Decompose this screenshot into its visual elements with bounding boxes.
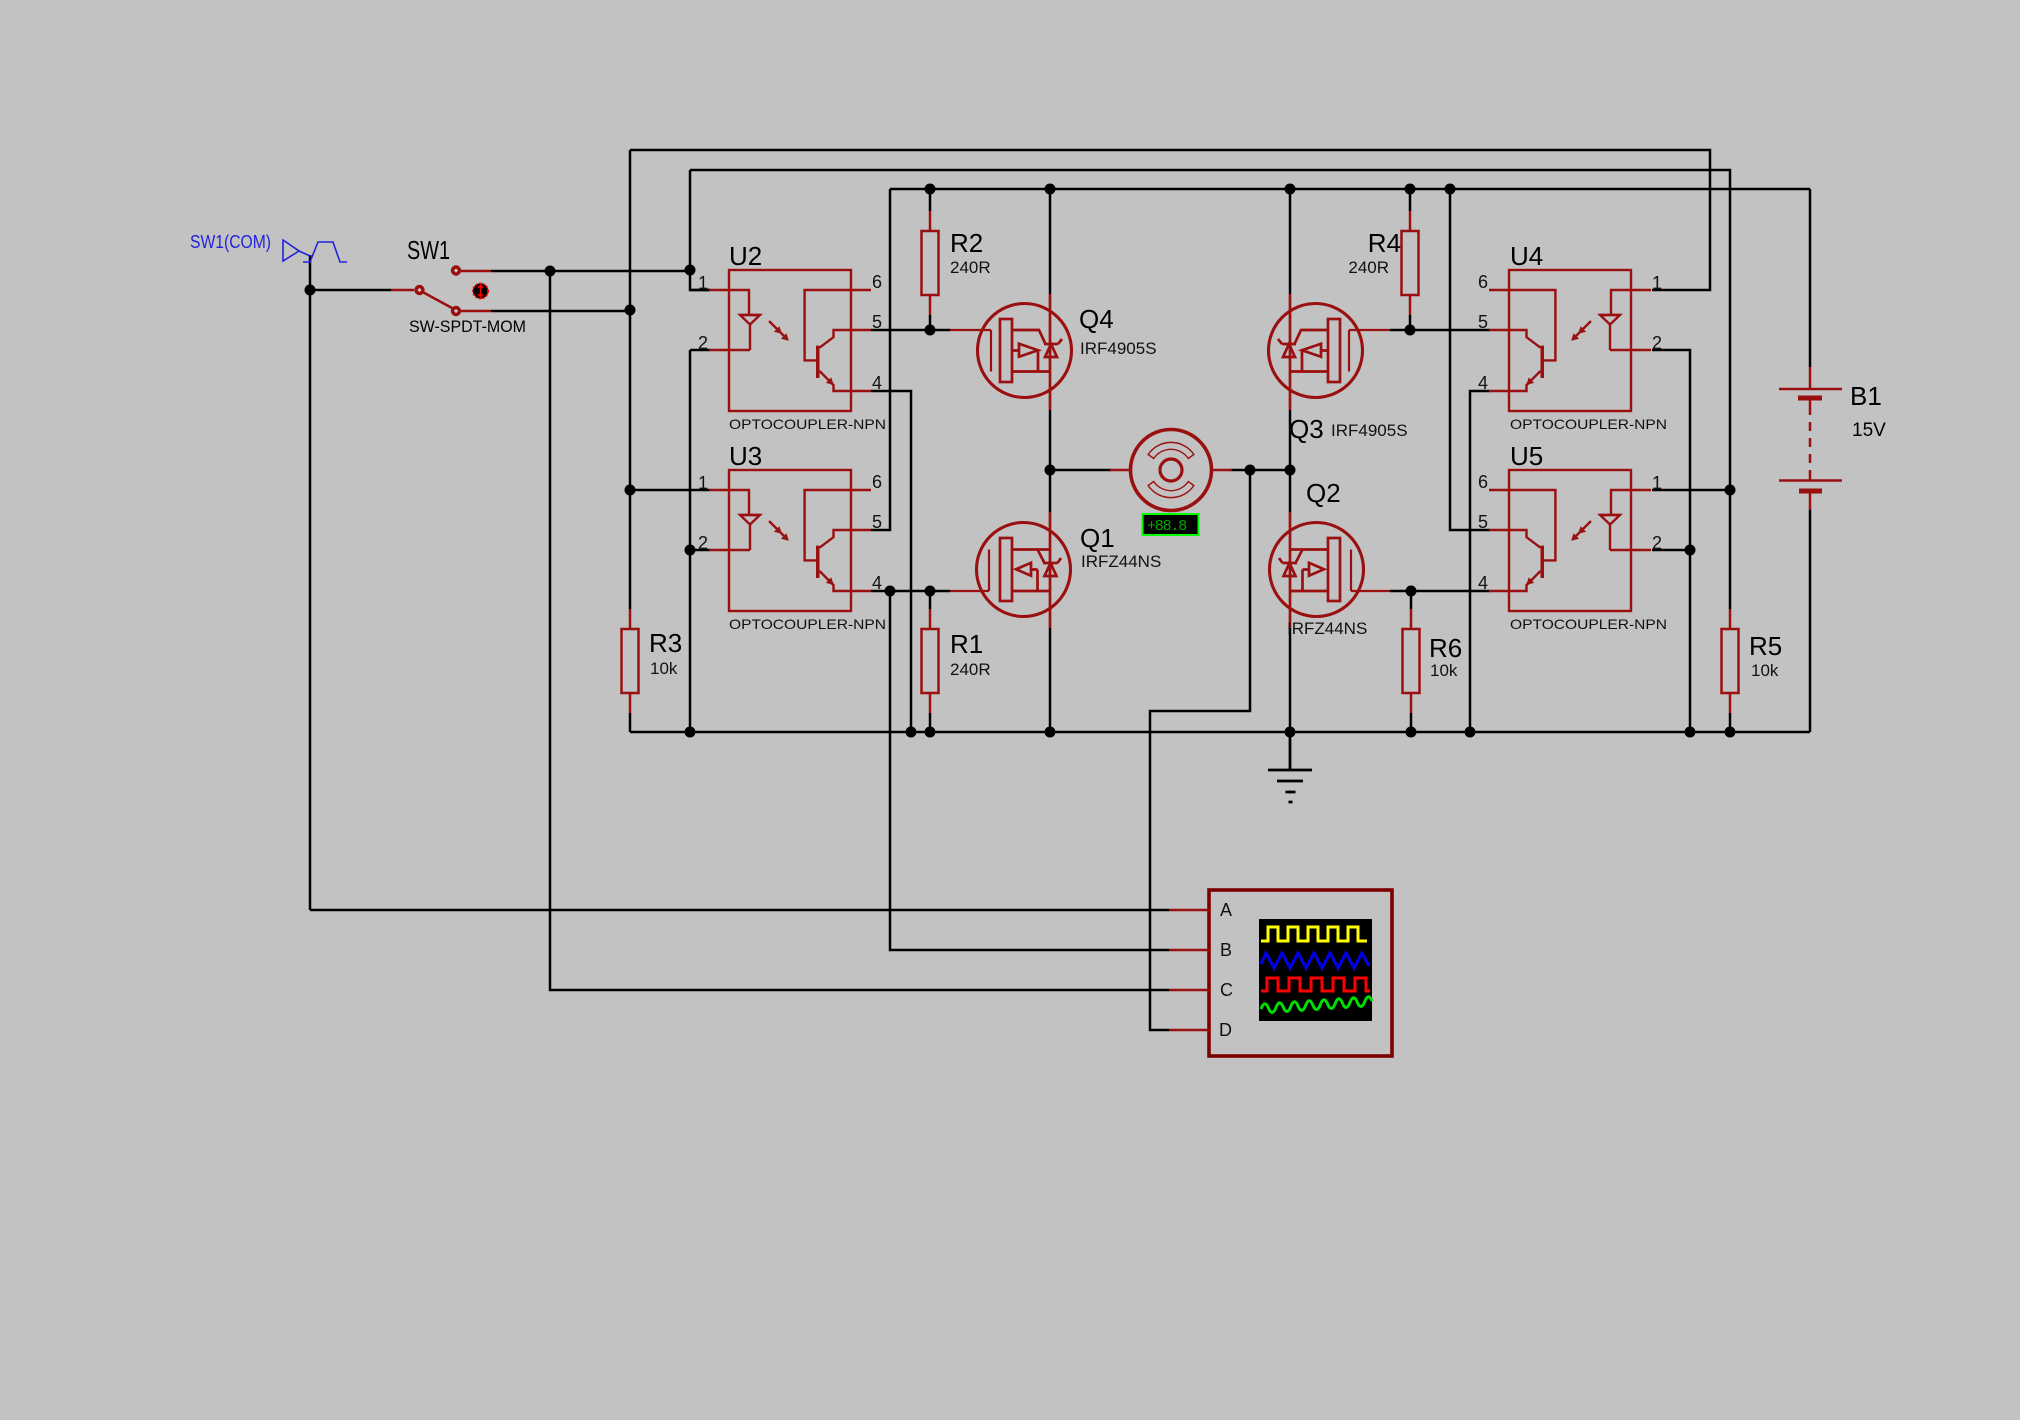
wire U3 pin5 riser to V+ rail (871, 189, 890, 530)
junction (1290,732) (1285, 727, 1296, 738)
junction (1450,189) (1445, 184, 1456, 195)
transistor Q3 labels (1289, 414, 1408, 444)
wire SW1 lower throw to x=630 (491, 310, 630, 311)
transistor Q4 (950, 294, 1072, 410)
junction (1690,550) (1685, 545, 1696, 556)
junction (690,550) (685, 545, 696, 556)
junction (930,330) (925, 325, 936, 336)
svg-text:6: 6 (872, 272, 882, 292)
svg-text:R2: R2 (950, 228, 983, 258)
wire top bus 2 (SW1 upper net to U5 pin1) (690, 170, 1730, 609)
optocoupler U2 labels (698, 241, 886, 432)
wire R6 stubs (1410, 591, 1413, 732)
ground (1268, 732, 1312, 802)
resistor R1 (922, 609, 939, 713)
junction (1290,189) (1285, 184, 1296, 195)
svg-text:IRFZ44NS: IRFZ44NS (1287, 619, 1367, 638)
wire U5 pin4 to R6 top and Q2 gate (1411, 590, 1490, 593)
svg-text:U3: U3 (729, 441, 762, 471)
wire U2 pin5 to R2 bottom and Q4 gate (871, 329, 950, 332)
svg-text:SW1(COM): SW1(COM) (190, 232, 271, 252)
svg-text:SW1: SW1 (407, 235, 450, 265)
junction (890,591) (885, 586, 896, 597)
wire U2 pin1 lead (690, 289, 710, 292)
junction (630,490) (625, 485, 636, 496)
wire x=630 vertical (SW1 lower throw to R3 / U3 pin1) (629, 150, 632, 609)
resistor R1 labels (950, 629, 991, 679)
svg-text:10k: 10k (650, 659, 678, 678)
svg-text:4: 4 (872, 573, 882, 593)
wire U5 pin1 to x=1730 (1652, 489, 1730, 492)
wire U3 pin2 lead (690, 549, 710, 552)
svg-text:B1: B1 (1850, 381, 1882, 411)
junction (1690,732) (1685, 727, 1696, 738)
wire R4 stubs (1409, 189, 1412, 330)
battery B1 (1779, 367, 1842, 510)
wire scope C from SW1 upper net (550, 271, 1169, 990)
svg-text:OPTOCOUPLER-NPN: OPTOCOUPLER-NPN (729, 416, 886, 432)
wire R5 bottom stub (1729, 713, 1732, 732)
resistor R3 (622, 609, 639, 713)
svg-text:Q2: Q2 (1306, 478, 1341, 508)
wire R2 stubs (929, 189, 932, 330)
motor (1110, 430, 1232, 511)
wire U5 pin2 lead (1652, 549, 1690, 552)
svg-text:1: 1 (698, 273, 708, 293)
svg-text:4: 4 (872, 373, 882, 393)
oscilloscope (1169, 890, 1392, 1056)
resistor R6 (1403, 609, 1420, 713)
svg-text:R4: R4 (1368, 228, 1401, 258)
svg-text:U2: U2 (729, 241, 762, 271)
svg-text:6: 6 (872, 472, 882, 492)
battery B1 labels (1850, 381, 1886, 441)
wire top bus 3 (V+ rail y=189) (890, 188, 1810, 191)
wire Q3 drain/source column x=1290 (1289, 189, 1292, 470)
junction (1050,732) (1045, 727, 1056, 738)
junction (630,310) (625, 305, 636, 316)
svg-text:R6: R6 (1429, 633, 1462, 663)
transistor Q1 (950, 512, 1071, 628)
wire ground bus (630, 731, 1810, 734)
wire Q4 drain/source column x=1050 (1049, 189, 1052, 470)
svg-text:IRFZ44NS: IRFZ44NS (1081, 552, 1161, 571)
wire motor right lead (1231, 469, 1290, 472)
optocoupler U3 labels (698, 441, 886, 632)
optocoupler U4 (1489, 270, 1651, 411)
svg-text:R3: R3 (649, 628, 682, 658)
svg-text:SW-SPDT-MOM: SW-SPDT-MOM (409, 317, 526, 336)
transistor Q3 (1269, 294, 1391, 410)
junction (1411,732) (1406, 727, 1417, 738)
junction (1250,470) (1245, 465, 1256, 476)
wire Q3 gate to R4 junction (1390, 329, 1410, 332)
optocoupler U4 labels (1478, 241, 1667, 432)
junction (1730,490) (1725, 485, 1736, 496)
svg-text:OPTOCOUPLER-NPN: OPTOCOUPLER-NPN (1510, 416, 1667, 432)
junction (1410,189) (1405, 184, 1416, 195)
svg-text:10k: 10k (1430, 661, 1458, 680)
wire U2 pin4 down to ground bus (871, 391, 911, 732)
svg-text:5: 5 (872, 312, 882, 332)
svg-text:2: 2 (698, 333, 708, 353)
wire Q2 gate to R6 junction (1390, 590, 1411, 593)
motor value display +88.8 (1143, 514, 1199, 535)
junction (690,270) (685, 265, 696, 276)
svg-text:R5: R5 (1749, 631, 1782, 661)
wire battery column (1809, 189, 1812, 732)
svg-text:1: 1 (698, 473, 708, 493)
svg-text:240R: 240R (950, 660, 991, 679)
optocoupler U5 labels (1478, 441, 1667, 632)
optocoupler U3 (709, 470, 871, 611)
junction (1050,470) (1045, 465, 1056, 476)
svg-text:C: C (1220, 980, 1233, 1000)
switch SW1 (SW-SPDT-MOM) (391, 265, 491, 316)
resistor R2 labels (950, 228, 991, 277)
svg-text:+88.8: +88.8 (1147, 518, 1187, 535)
junction (1730,732) (1725, 727, 1736, 738)
svg-text:15V: 15V (1852, 420, 1886, 441)
svg-text:B: B (1220, 940, 1232, 960)
svg-text:2: 2 (1652, 333, 1662, 353)
junction (690,732) (685, 727, 696, 738)
junction (930,732) (925, 727, 936, 738)
resistor R6 labels (1429, 633, 1462, 680)
resistor R5 (1722, 609, 1739, 713)
svg-text:Q4: Q4 (1079, 304, 1114, 334)
svg-text:4: 4 (1478, 573, 1488, 593)
wire SW1 upper throw to junctions (491, 270, 690, 273)
svg-text:5: 5 (872, 512, 882, 532)
svg-text:6: 6 (1478, 272, 1488, 292)
resistor R4 (1402, 211, 1419, 315)
svg-text:2: 2 (1652, 533, 1662, 553)
junction (930,591) (925, 586, 936, 597)
junction (1410,330) (1405, 325, 1416, 336)
wire U3 pin4 to R1 top and Q1 gate (871, 590, 950, 593)
wire V+ rail riser x=1450 to U5 pin5 (1450, 189, 1490, 530)
svg-text:10k: 10k (1751, 661, 1779, 680)
wire scope B from U3 pin4 node (890, 591, 1169, 950)
junction (911,732) (906, 727, 917, 738)
svg-text:A: A (1220, 900, 1232, 920)
svg-text:R1: R1 (950, 629, 983, 659)
wire top bus 1 (SW1 lower net to U4 pin1) (630, 150, 1710, 290)
junction (550,271) (545, 266, 556, 277)
wire x=690 vertical upper (bus2 to SW1 upper wire to U2 pin1) (690, 170, 710, 290)
svg-text:OPTOCOUPLER-NPN: OPTOCOUPLER-NPN (1510, 616, 1667, 632)
svg-text:5: 5 (1478, 512, 1488, 532)
svg-text:240R: 240R (1348, 258, 1389, 277)
wire motor left lead (1050, 469, 1111, 472)
svg-text:1: 1 (1652, 473, 1662, 493)
svg-text:D: D (1219, 1020, 1232, 1040)
svg-text:OPTOCOUPLER-NPN: OPTOCOUPLER-NPN (729, 616, 886, 632)
wire R3 bottom stub (629, 713, 632, 732)
wire U2 pin2 lead (690, 349, 710, 352)
optocoupler U5 (1489, 470, 1651, 611)
junction (1411,591) (1406, 586, 1417, 597)
junction (1470,732) (1465, 727, 1476, 738)
resistor R2 (922, 211, 939, 315)
resistor R5 labels (1749, 631, 1782, 680)
junction (930,189) (925, 184, 936, 195)
transistor Q2 labels (1287, 478, 1367, 638)
transistor Q4 labels (1079, 304, 1157, 358)
voltage probe SW1(COM) (283, 240, 347, 262)
wire R1 stubs (929, 591, 932, 732)
svg-text:U5: U5 (1510, 441, 1543, 471)
wire SW1 COM to probe node (310, 255, 391, 910)
junction (310,290) (305, 285, 316, 296)
wire scope A from SW1 COM (310, 909, 1169, 912)
transistor Q2 (1270, 512, 1391, 628)
svg-text:5: 5 (1478, 312, 1488, 332)
wire scope D from motor right node (1150, 470, 1250, 1030)
resistor R4 labels (1348, 228, 1401, 277)
wire U4 pin4 down to ground bus (1470, 391, 1490, 732)
svg-text:IRF4905S: IRF4905S (1331, 421, 1408, 440)
svg-text:240R: 240R (950, 258, 991, 277)
optocoupler U2 (709, 270, 871, 411)
wire Q1 drain/source column (1049, 470, 1052, 732)
svg-text:6: 6 (1478, 472, 1488, 492)
wire Q2 drain/source column (1289, 470, 1292, 732)
wire U3 pin1 lead (630, 489, 710, 492)
svg-text:IRF4905S: IRF4905S (1080, 339, 1157, 358)
junction (1050,189) (1045, 184, 1056, 195)
junction (1290,470) (1285, 465, 1296, 476)
wire U4 pin2 to U5 pin2 to ground bus (1652, 350, 1690, 732)
oscilloscope channel labels (1219, 900, 1233, 1040)
svg-text:1: 1 (1652, 273, 1662, 293)
wire U4 pin5 to R4 bottom (1410, 329, 1490, 332)
svg-text:Q3: Q3 (1289, 414, 1324, 444)
svg-text:2: 2 (698, 533, 708, 553)
svg-text:4: 4 (1478, 373, 1488, 393)
svg-text:Q1: Q1 (1080, 523, 1115, 553)
svg-text:U4: U4 (1510, 241, 1543, 271)
wire x=690 vertical lower (U2 pin2 to U3 pin2 to ground bus) (689, 350, 692, 732)
transistor Q1 labels (1080, 523, 1161, 571)
resistor R3 labels (649, 628, 682, 678)
